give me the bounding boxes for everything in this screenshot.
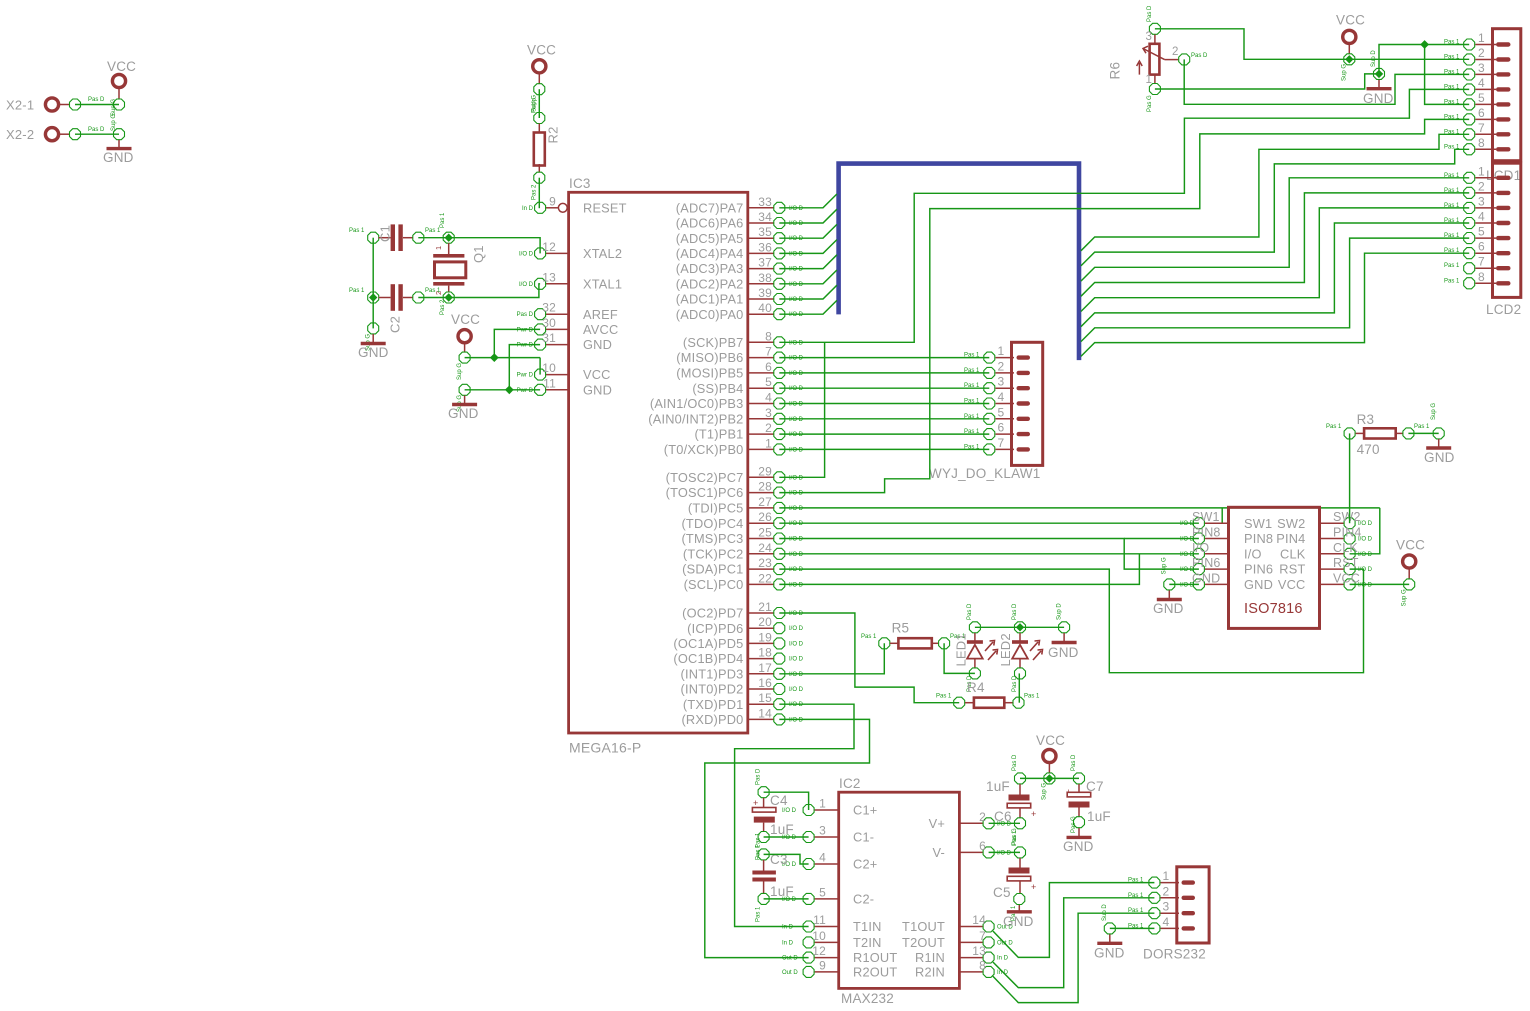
pin PIN8 of ISO7816 (1205, 538, 1229, 540)
svg-text:Pas 2: Pas 2 (532, 184, 538, 200)
resistor R4 (954, 697, 965, 708)
svg-text:1uF: 1uF (1087, 809, 1111, 824)
pin 8 of LCD1 (1475, 148, 1496, 150)
svg-text:Pwr D: Pwr D (517, 373, 534, 379)
svg-text:I/O D: I/O D (789, 386, 804, 392)
svg-text:Pas 1: Pas 1 (1444, 218, 1460, 224)
svg-text:Pas D: Pas D (1191, 53, 1208, 59)
node X2-1 pin (70, 99, 81, 110)
svg-text:Pas 1: Pas 1 (425, 228, 441, 234)
svg-text:Pas 1: Pas 1 (964, 414, 980, 420)
svg-text:10: 10 (542, 361, 556, 375)
svg-text:27: 27 (758, 495, 772, 509)
wire VCC to AVCC and VCC pins (465, 357, 540, 359)
svg-text:R2OUT: R2OUT (853, 965, 897, 980)
wire PA pin to bus (779, 194, 837, 208)
wire C2 to Q1 node (418, 297, 448, 299)
wire Q1 node to XTAL1 (449, 284, 540, 298)
wire LCD1 pin1 to GND and pin5 (1379, 45, 1469, 74)
wire C6 to V+ (989, 822, 1020, 824)
svg-text:Pas 1: Pas 1 (1024, 694, 1040, 700)
svg-text:21: 21 (758, 600, 772, 614)
svg-text:6: 6 (979, 839, 986, 853)
pin 2 (T1)PB1 of IC3 (748, 433, 774, 435)
svg-text:Pas D: Pas D (756, 768, 762, 785)
IC IC2 MAX232 body (839, 792, 960, 988)
svg-text:Pas D: Pas D (1147, 5, 1153, 22)
svg-text:In D: In D (782, 940, 794, 946)
pin 29 (TOSC2)PC7 of IC3 (748, 476, 774, 478)
svg-text:Sup G: Sup G (457, 363, 463, 380)
crystal Q1 (448, 243, 450, 255)
capacitor C3 (758, 849, 769, 860)
svg-text:C4: C4 (770, 793, 788, 808)
svg-text:Pas 1: Pas 1 (861, 634, 877, 640)
pin 1 of WYJ_DO_KLAW1 (996, 357, 1015, 359)
svg-text:5: 5 (765, 375, 772, 389)
svg-text:WYJ_DO_KLAW1: WYJ_DO_KLAW1 (929, 466, 1040, 481)
svg-text:(OC1A)PD5: (OC1A)PD5 (673, 636, 743, 651)
wire R5 to LED1 anode (944, 643, 975, 673)
wire PA pin to bus (779, 224, 837, 238)
svg-text:R3: R3 (1357, 412, 1375, 427)
svg-text:SW2: SW2 (1333, 510, 1361, 524)
svg-text:13: 13 (542, 270, 556, 284)
svg-text:VCC: VCC (1333, 571, 1360, 585)
svg-text:36: 36 (758, 240, 772, 254)
wire C4 to C1+ (764, 792, 809, 810)
svg-text:PIN4: PIN4 (1276, 531, 1305, 546)
svg-text:I/O D: I/O D (789, 356, 804, 362)
pin 2 V+ of IC2 (959, 822, 982, 824)
pin 4 of WYJ_DO_KLAW1 (996, 403, 1015, 405)
svg-text:MAX232: MAX232 (841, 991, 894, 1006)
svg-text:RESET: RESET (583, 200, 627, 215)
svg-text:Sup D: Sup D (1102, 904, 1108, 921)
svg-text:2: 2 (765, 421, 772, 435)
svg-text:I/O D: I/O D (789, 537, 804, 543)
capacitor C7 (1074, 773, 1085, 784)
ground GND (C5) (1018, 905, 1020, 911)
svg-text:Pwr D: Pwr D (517, 388, 534, 394)
svg-text:I/O D: I/O D (789, 491, 804, 497)
svg-text:X2-2: X2-2 (6, 127, 34, 142)
svg-text:3: 3 (765, 406, 772, 420)
pin 26 (TDO)PC4 of IC3 (748, 522, 774, 524)
svg-text:I/O D: I/O D (782, 808, 797, 814)
bus (PA/LCD data bus) (839, 164, 1079, 361)
svg-text:Pas 1: Pas 1 (1444, 248, 1460, 254)
svg-text:Pas 1: Pas 1 (1444, 114, 1460, 120)
svg-text:(TOSC2)PC7: (TOSC2)PC7 (666, 470, 744, 485)
svg-text:Sup G: Sup G (1042, 783, 1048, 800)
svg-text:6: 6 (765, 360, 772, 374)
svg-text:VCC: VCC (451, 312, 480, 327)
svg-text:7: 7 (765, 345, 772, 359)
ground GND (C7) (1078, 828, 1080, 837)
svg-text:VCC: VCC (107, 59, 136, 74)
svg-text:I/O D: I/O D (789, 312, 804, 318)
svg-text:(SS)PB4: (SS)PB4 (692, 381, 743, 396)
svg-text:In D: In D (782, 925, 794, 931)
svg-text:3: 3 (1478, 194, 1485, 208)
LED LED1 (969, 622, 980, 633)
svg-text:I/O D: I/O D (789, 371, 804, 377)
pin 14 T1OUT of IC2 (959, 926, 982, 928)
svg-text:(RXD)PD0: (RXD)PD0 (681, 712, 743, 727)
pin 30 AVCC of IC3 (546, 328, 569, 330)
svg-text:C2+: C2+ (853, 857, 877, 872)
pin PIN6 of ISO7816 (1205, 568, 1229, 570)
svg-text:T1IN: T1IN (853, 919, 882, 934)
svg-text:34: 34 (758, 210, 772, 224)
svg-text:(ADC6)PA6: (ADC6)PA6 (676, 216, 744, 231)
svg-text:(ADC4)PA4: (ADC4)PA4 (676, 246, 744, 261)
svg-text:DORS232: DORS232 (1143, 947, 1206, 962)
svg-text:Pas G: Pas G (1071, 816, 1077, 833)
svg-text:Pas 1: Pas 1 (1444, 144, 1460, 150)
pin 8 (SCK)PB7 of IC3 (748, 341, 774, 343)
svg-text:Pas D: Pas D (1012, 675, 1018, 692)
svg-text:Pas 1: Pas 1 (964, 444, 980, 450)
pin 18 (OC1B)PD4 of IC3 (748, 658, 774, 660)
svg-text:2: 2 (1478, 179, 1485, 193)
pin 7 of LCD2 (1475, 267, 1496, 269)
svg-text:Pas D: Pas D (967, 603, 973, 620)
svg-text:(TDI)PC5: (TDI)PC5 (688, 501, 744, 516)
svg-text:I/O D: I/O D (789, 221, 804, 227)
svg-text:R4: R4 (967, 680, 985, 695)
svg-text:Pas 1: Pas 1 (1444, 99, 1460, 105)
wire PB4 to WYJ pin 3 (779, 387, 989, 389)
wire C2 to GND (372, 298, 374, 329)
svg-text:I/O D: I/O D (789, 717, 804, 723)
pin 19 (OC1A)PD5 of IC3 (748, 642, 774, 644)
svg-text:T1OUT: T1OUT (902, 919, 945, 934)
svg-text:35: 35 (758, 225, 772, 239)
svg-text:Out D: Out D (782, 956, 798, 962)
svg-text:Q1: Q1 (471, 245, 486, 263)
svg-text:2: 2 (1163, 884, 1170, 898)
resistor R2 (538, 124, 540, 135)
svg-text:23: 23 (758, 556, 772, 570)
svg-text:(ADC3)PA3: (ADC3)PA3 (676, 261, 744, 276)
svg-text:26: 26 (758, 510, 772, 524)
svg-text:IC2: IC2 (839, 776, 861, 791)
svg-text:GND: GND (103, 150, 134, 165)
ground GND (LEDs) (1059, 622, 1070, 633)
pin 13 XTAL1 of IC3 (546, 283, 569, 285)
svg-text:Pas 1: Pas 1 (964, 429, 980, 435)
svg-text:(MISO)PB6: (MISO)PB6 (676, 350, 743, 365)
svg-text:I/O D: I/O D (789, 340, 804, 346)
svg-text:I/O D: I/O D (1358, 582, 1373, 588)
svg-text:2: 2 (1172, 46, 1179, 58)
svg-text:5: 5 (1478, 91, 1485, 105)
svg-text:SW2: SW2 (1277, 516, 1305, 531)
svg-text:7: 7 (998, 436, 1005, 450)
wire PB2 to WYJ pin 5 (779, 418, 989, 420)
potentiometer R6 (1149, 23, 1160, 34)
pin CLK of ISO7816 (1320, 553, 1344, 555)
wire C3 to C2- (764, 898, 809, 900)
wire PA pin to bus (779, 240, 837, 254)
pin 39 (ADC1)PA1 of IC3 (748, 298, 774, 300)
wire PD3 to R5 (779, 643, 884, 674)
svg-text:PIN6: PIN6 (1192, 556, 1221, 570)
svg-text:I/O: I/O (1192, 541, 1209, 555)
capacitor C1 (368, 232, 379, 243)
svg-text:28: 28 (758, 480, 772, 494)
pin 23 (SDA)PC1 of IC3 (748, 568, 774, 570)
node VCC junction (490, 353, 499, 362)
svg-text:SW1: SW1 (1192, 510, 1220, 524)
svg-text:C2: C2 (388, 316, 403, 333)
svg-text:I/O D: I/O D (789, 506, 804, 512)
svg-text:RST: RST (1333, 556, 1359, 570)
svg-text:1: 1 (1146, 74, 1153, 86)
svg-text:Pas D: Pas D (517, 312, 534, 318)
wire C5 to V- (989, 851, 1020, 853)
svg-text:33: 33 (758, 195, 772, 209)
pin 1 of LCD2 (1475, 177, 1496, 179)
pin 16 (INT0)PD2 of IC3 (748, 688, 774, 690)
pin SW2 of ISO7816 (1320, 522, 1344, 524)
pin 8 of LCD2 (1475, 282, 1496, 284)
svg-text:RST: RST (1279, 562, 1305, 577)
wire PA pin to bus (779, 285, 837, 299)
svg-text:PIN8: PIN8 (1244, 531, 1273, 546)
pin 6 V- of IC2 (959, 851, 982, 853)
svg-text:Pas 1: Pas 1 (1128, 878, 1144, 884)
svg-text:Pas D: Pas D (1012, 603, 1018, 620)
wire PC5 to ISO7816 CLK (779, 507, 1380, 509)
svg-text:2: 2 (979, 810, 986, 824)
capacitor C6 (1015, 773, 1026, 784)
node R2 bottom pin (534, 172, 545, 183)
wire T1OUT to DORS232 pin1 (993, 883, 1155, 958)
pin I/O of ISO7816 (1205, 553, 1229, 555)
svg-text:+: + (1031, 809, 1036, 819)
svg-text:(TXD)PD1: (TXD)PD1 (683, 697, 744, 712)
svg-text:2: 2 (1478, 46, 1485, 60)
svg-text:Pas 1: Pas 1 (1128, 923, 1144, 929)
svg-text:PIN4: PIN4 (1333, 526, 1362, 540)
pin 5 of LCD2 (1475, 237, 1496, 239)
svg-text:Pas 1: Pas 1 (1128, 893, 1144, 899)
pin 10 VCC of IC3 (546, 374, 569, 376)
pin 4 (AIN1/OC0)PB3 of IC3 (748, 403, 774, 405)
wire PB0 to WYJ pin 7 (779, 448, 989, 450)
pin RST of ISO7816 (1320, 568, 1344, 570)
wire R3 to ISO SW2 (1349, 433, 1351, 523)
svg-text:+: + (753, 798, 758, 808)
svg-text:I/O D: I/O D (519, 282, 534, 288)
svg-text:LED2: LED2 (998, 633, 1013, 666)
node X2-2 pin (70, 129, 81, 140)
wire VCC to R2 (538, 89, 540, 118)
svg-text:Pas G: Pas G (1147, 95, 1153, 112)
node Q1 bottom junction (443, 292, 454, 303)
svg-text:Pas 1: Pas 1 (1444, 188, 1460, 194)
svg-text:4: 4 (819, 851, 826, 865)
svg-text:3: 3 (998, 375, 1005, 389)
svg-text:C5: C5 (993, 885, 1011, 900)
svg-text:4: 4 (765, 391, 772, 405)
pin 1 C1+ of IC2 (815, 809, 839, 811)
wire PC7 to SCK net (779, 342, 824, 477)
pin 7 of LCD1 (1475, 133, 1496, 135)
svg-text:13: 13 (972, 944, 986, 958)
svg-text:Pas 1: Pas 1 (1444, 55, 1460, 61)
svg-text:SW1: SW1 (1244, 516, 1272, 531)
pin PIN4 of ISO7816 (1320, 538, 1344, 540)
svg-text:R1IN: R1IN (915, 950, 945, 965)
pin 2 of LCD2 (1475, 192, 1496, 194)
wire bus exit to LCD1 pin 7 (1081, 134, 1469, 251)
pin 13 R1IN of IC2 (959, 957, 982, 959)
svg-text:Pas 1: Pas 1 (1414, 424, 1430, 430)
svg-text:40: 40 (758, 301, 772, 315)
svg-text:I/O D: I/O D (789, 447, 804, 453)
svg-text:Pwr D: Pwr D (517, 343, 534, 349)
capacitor C4 (758, 787, 769, 798)
svg-text:18: 18 (758, 646, 772, 660)
pin 28 (TOSC1)PC6 of IC3 (748, 492, 774, 494)
svg-text:R1OUT: R1OUT (853, 950, 897, 965)
pin 2 of LCD1 (1475, 59, 1496, 61)
svg-text:PIN8: PIN8 (1192, 526, 1221, 540)
pin 14 (RXD)PD0 of IC3 (748, 718, 774, 720)
pin 5 of LCD1 (1475, 103, 1496, 105)
ground GND (R3) (1433, 428, 1444, 439)
wire R2 to RESET (538, 178, 540, 209)
pin 4 C2+ of IC2 (815, 863, 839, 865)
svg-text:I/O D: I/O D (789, 626, 804, 632)
pin 27 (TDI)PC5 of IC3 (748, 507, 774, 509)
wire GND to GND pins (465, 389, 540, 391)
svg-text:PuUp: PuUp (532, 97, 538, 113)
svg-text:IC3: IC3 (569, 176, 591, 191)
pin 3 of LCD1 (1475, 73, 1496, 75)
svg-text:25: 25 (758, 526, 772, 540)
svg-text:PIN6: PIN6 (1244, 562, 1273, 577)
svg-text:I/O D: I/O D (789, 641, 804, 647)
svg-text:(T0/XCK)PB0: (T0/XCK)PB0 (664, 442, 744, 457)
pin 36 (ADC4)PA4 of IC3 (748, 252, 774, 254)
wire PA pin to bus (779, 300, 837, 314)
wire R6 pin1 to GND (1155, 74, 1379, 89)
node R2 top pin (534, 113, 545, 124)
wire LED cathodes to GND (975, 626, 1064, 628)
wire bus exit to LCD2 pin 4 (1081, 223, 1469, 327)
svg-text:Pas D: Pas D (1012, 754, 1018, 771)
svg-text:(ADC2)PA2: (ADC2)PA2 (676, 276, 744, 291)
svg-text:In D: In D (997, 956, 1009, 962)
svg-text:MEGA16-P: MEGA16-P (569, 740, 641, 756)
wire PC4 to ISO7816 SW1 (779, 522, 1199, 524)
svg-text:GND: GND (1063, 839, 1094, 854)
svg-text:16: 16 (758, 676, 772, 690)
wire PB3 to WYJ pin 4 (779, 403, 989, 405)
svg-text:Sup G: Sup G (1402, 589, 1408, 606)
wire PB1 to WYJ pin 6 (779, 433, 989, 435)
svg-text:Pas 1: Pas 1 (1128, 908, 1144, 914)
ground GND (top left) (114, 129, 125, 140)
svg-text:5: 5 (1478, 225, 1485, 239)
svg-text:Pas 1: Pas 1 (964, 368, 980, 374)
IC U-IC3 MEGA16-P body (569, 192, 748, 733)
wire C3 to C2+ (764, 854, 809, 864)
svg-text:T2IN: T2IN (853, 935, 882, 950)
node GND junction on pin1 wire (1420, 40, 1429, 49)
pin 35 (ADC5)PA5 of IC3 (748, 237, 774, 239)
svg-text:6: 6 (1478, 240, 1485, 254)
svg-text:In D: In D (522, 206, 534, 212)
wire R6 wiper to LCD1 pin3 (V0) (1184, 59, 1469, 104)
svg-text:Sup G: Sup G (111, 114, 117, 131)
svg-text:Sup G: Sup G (1162, 557, 1168, 574)
svg-text:(ICP)PD6: (ICP)PD6 (687, 621, 743, 636)
svg-text:14: 14 (758, 706, 772, 720)
wire X2-2 to GND (75, 133, 119, 135)
svg-text:4: 4 (998, 390, 1005, 404)
svg-text:I/O D: I/O D (789, 402, 804, 408)
svg-text:R2: R2 (546, 126, 561, 143)
pin 7 T2OUT of IC2 (959, 941, 982, 943)
svg-text:2: 2 (998, 359, 1005, 373)
svg-text:Pas D: Pas D (88, 97, 105, 103)
svg-text:Pas 1: Pas 1 (1444, 278, 1460, 284)
wire net SCK (PB7/PC7 to LCD1 pin4) (779, 89, 1469, 342)
svg-text:470: 470 (1357, 442, 1380, 457)
pin GND of ISO7816 (1205, 583, 1229, 585)
pin 15 (TXD)PD1 of IC3 (748, 703, 774, 705)
svg-text:11: 11 (543, 376, 556, 390)
pin 7 (MISO)PB6 of IC3 (748, 357, 774, 359)
svg-text:38: 38 (758, 271, 772, 285)
svg-text:4: 4 (1478, 76, 1485, 90)
pin 34 (ADC6)PA6 of IC3 (748, 222, 774, 224)
pin 3 of DORS232 (1160, 912, 1179, 914)
svg-text:Pwr D: Pwr D (517, 327, 534, 333)
pin 8 R2IN of IC2 (959, 971, 982, 973)
pin 21 (OC2)PD7 of IC3 (748, 612, 774, 614)
wire bus exit to LCD2 pin 6 (1081, 253, 1469, 356)
svg-text:Pas D: Pas D (1071, 754, 1077, 771)
connector pad X2-1 (58, 104, 70, 106)
svg-text:1: 1 (1478, 164, 1485, 178)
pin 1 of LCD1 (1475, 44, 1496, 46)
svg-text:VCC: VCC (527, 43, 556, 58)
svg-text:19: 19 (758, 630, 772, 644)
svg-text:7: 7 (1478, 255, 1485, 269)
svg-text:I/O D: I/O D (789, 552, 804, 558)
svg-text:LED1: LED1 (953, 633, 968, 666)
svg-text:C1: C1 (378, 225, 393, 242)
wire PA pin to bus (779, 255, 837, 269)
wire PC5 jog to SW1 stub (1221, 508, 1223, 523)
svg-text:(INT0)PD2: (INT0)PD2 (681, 682, 744, 697)
svg-text:11: 11 (813, 913, 826, 927)
pin 12 R1OUT of IC2 (815, 957, 839, 959)
svg-text:9: 9 (549, 194, 556, 208)
svg-text:I/O D: I/O D (789, 702, 804, 708)
connector DORS232 body (1177, 867, 1209, 943)
pin 9 RESET of IC3 (546, 207, 559, 209)
svg-text:(OC1B)PD4: (OC1B)PD4 (673, 651, 743, 666)
connector pad X2-2 (58, 133, 70, 135)
